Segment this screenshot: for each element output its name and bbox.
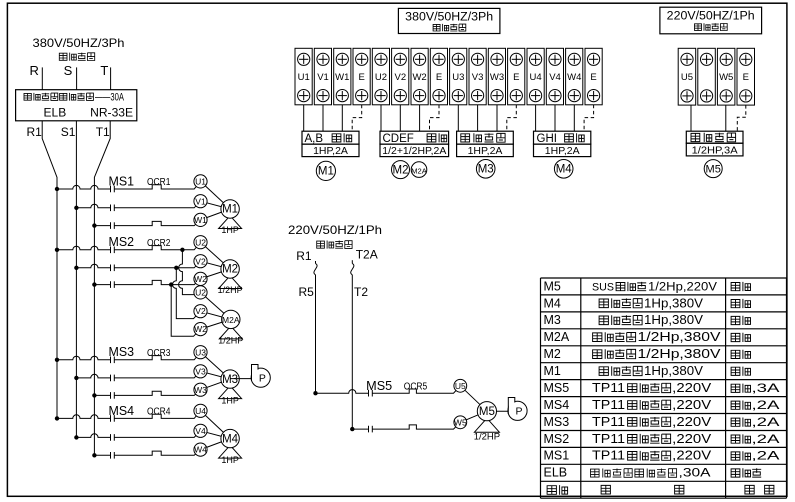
svg-text:SUS: SUS — [592, 281, 614, 293]
svg-text:T2A: T2A — [356, 247, 378, 261]
svg-text:M4: M4 — [556, 164, 573, 176]
svg-text:1HP: 1HP — [221, 225, 239, 235]
svg-text:OCR1: OCR1 — [147, 177, 171, 188]
svg-text:M1: M1 — [544, 364, 561, 378]
svg-text:TP11: TP11 — [592, 449, 625, 463]
svg-text:1Hp,380V: 1Hp,380V — [644, 296, 704, 310]
svg-text:380V/50HZ/3Ph: 380V/50HZ/3Ph — [33, 36, 125, 50]
svg-text:,2A: ,2A — [752, 432, 780, 446]
svg-text:M2: M2 — [222, 264, 238, 276]
svg-text:U3: U3 — [452, 72, 464, 83]
svg-text:380V/50HZ/3Ph: 380V/50HZ/3Ph — [405, 12, 493, 24]
svg-text:M1: M1 — [318, 166, 334, 178]
svg-text:1/2Hp,220V: 1/2Hp,220V — [648, 281, 717, 293]
svg-text:1/2HP: 1/2HP — [218, 336, 243, 346]
svg-text:V4: V4 — [195, 426, 206, 436]
svg-text:MS1: MS1 — [109, 174, 135, 188]
svg-text:1HP: 1HP — [221, 395, 239, 405]
svg-text:M2A: M2A — [544, 330, 570, 344]
svg-text:1/2HP,3A: 1/2HP,3A — [692, 144, 738, 156]
svg-text:U1: U1 — [298, 72, 310, 83]
svg-text:U2: U2 — [375, 72, 387, 83]
svg-text:CDEF: CDEF — [383, 133, 414, 145]
svg-text:M2: M2 — [393, 164, 409, 176]
svg-text:V3: V3 — [195, 366, 206, 376]
svg-text:W5: W5 — [719, 72, 733, 83]
svg-text:,220V: ,220V — [672, 415, 712, 429]
svg-text:W4: W4 — [194, 445, 207, 455]
svg-text:MS2: MS2 — [544, 432, 570, 446]
svg-text:MS5: MS5 — [366, 379, 392, 393]
svg-text:U2: U2 — [195, 237, 206, 247]
svg-text:,220V: ,220V — [672, 398, 712, 412]
svg-text:T2: T2 — [354, 285, 368, 299]
svg-text:ELB: ELB — [44, 106, 67, 120]
svg-text:V3: V3 — [472, 72, 484, 83]
svg-text:V2: V2 — [195, 256, 206, 266]
svg-text:W2: W2 — [194, 324, 207, 334]
svg-text:,220V: ,220V — [672, 432, 712, 446]
svg-text:M2: M2 — [544, 347, 561, 361]
svg-text:T: T — [100, 63, 108, 78]
svg-text:1HP,2A: 1HP,2A — [313, 145, 348, 157]
svg-text:1/2HP: 1/2HP — [218, 285, 243, 295]
svg-text:P: P — [259, 373, 266, 385]
svg-text:MS5: MS5 — [544, 381, 570, 395]
svg-text:V4: V4 — [549, 72, 561, 83]
svg-text:E: E — [743, 72, 749, 83]
svg-text:E: E — [590, 72, 596, 83]
svg-text:OCR2: OCR2 — [147, 238, 171, 249]
svg-text:M5: M5 — [479, 406, 495, 418]
svg-text:1Hp,380V: 1Hp,380V — [644, 313, 704, 327]
svg-text:TP11: TP11 — [592, 381, 625, 395]
svg-text:1Hp,380V: 1Hp,380V — [644, 364, 704, 378]
svg-text:MS3: MS3 — [544, 415, 570, 429]
svg-text:M4: M4 — [222, 433, 239, 445]
svg-text:MS4: MS4 — [109, 404, 135, 418]
svg-text:R: R — [30, 63, 39, 78]
svg-text:R1: R1 — [296, 249, 312, 263]
svg-text:W3: W3 — [490, 72, 504, 83]
svg-text:TP11: TP11 — [592, 398, 625, 412]
svg-text:M5: M5 — [544, 279, 561, 293]
svg-text:U5: U5 — [681, 72, 693, 83]
svg-text:TP11: TP11 — [592, 432, 625, 446]
svg-text:U3: U3 — [195, 347, 206, 357]
svg-text:M2A: M2A — [411, 166, 426, 175]
svg-text:W5: W5 — [454, 417, 467, 427]
svg-text:,220V: ,220V — [672, 449, 712, 463]
svg-text:OCR5: OCR5 — [404, 382, 428, 393]
svg-text:U4: U4 — [530, 72, 542, 83]
svg-text:U1: U1 — [195, 177, 206, 187]
svg-text:U5: U5 — [455, 381, 466, 391]
svg-text:M2A: M2A — [222, 315, 240, 325]
svg-text:ELB: ELB — [544, 466, 568, 480]
svg-text:W3: W3 — [194, 385, 207, 395]
svg-text:NR-33E: NR-33E — [90, 106, 133, 120]
svg-text:U2: U2 — [195, 287, 206, 297]
svg-text:——30A: ——30A — [95, 92, 124, 104]
svg-text:MS4: MS4 — [544, 398, 570, 412]
svg-text:,2A: ,2A — [752, 398, 780, 412]
svg-text:OCR3: OCR3 — [147, 348, 171, 359]
svg-text:1HP: 1HP — [221, 455, 239, 465]
svg-text:OCR4: OCR4 — [147, 407, 171, 418]
svg-text:220V/50HZ/1Ph: 220V/50HZ/1Ph — [288, 223, 382, 237]
svg-text:1HP,2A: 1HP,2A — [468, 145, 503, 157]
svg-text:MS1: MS1 — [544, 449, 570, 463]
svg-text:MS3: MS3 — [109, 345, 135, 359]
svg-text:M4: M4 — [544, 296, 561, 310]
svg-text:V1: V1 — [317, 72, 329, 83]
svg-text:R1: R1 — [27, 125, 43, 139]
svg-text:220V/50HZ/1Ph: 220V/50HZ/1Ph — [667, 11, 755, 23]
svg-text:V1: V1 — [195, 196, 206, 206]
svg-text:E: E — [513, 72, 519, 83]
svg-text:W4: W4 — [567, 72, 581, 83]
svg-text:M3: M3 — [222, 374, 238, 386]
svg-text:W1: W1 — [335, 72, 349, 83]
svg-text:S1: S1 — [61, 125, 76, 139]
svg-text:E: E — [436, 72, 442, 83]
svg-text:V2: V2 — [394, 72, 406, 83]
svg-text:1/2Hp,380V: 1/2Hp,380V — [638, 347, 722, 361]
svg-text:M1: M1 — [222, 204, 238, 216]
svg-text:,3A: ,3A — [752, 381, 780, 395]
svg-text:1HP,2A: 1HP,2A — [545, 145, 580, 157]
svg-text:,2A: ,2A — [752, 449, 780, 463]
svg-text:GHI: GHI — [537, 133, 557, 145]
svg-text:W2: W2 — [194, 274, 207, 284]
svg-text:E: E — [359, 72, 365, 83]
svg-text:A,B: A,B — [305, 133, 324, 145]
svg-text:M5: M5 — [706, 163, 721, 175]
svg-text:U4: U4 — [195, 406, 206, 416]
svg-text:W2: W2 — [412, 72, 426, 83]
svg-text:S: S — [64, 63, 73, 78]
svg-text:1/2Hp,380V: 1/2Hp,380V — [638, 330, 722, 344]
svg-text:1/2HP: 1/2HP — [474, 432, 500, 443]
svg-text:P: P — [515, 406, 522, 418]
svg-text:T1: T1 — [96, 125, 110, 139]
svg-text:TP11: TP11 — [592, 415, 625, 429]
svg-text:,2A: ,2A — [752, 415, 780, 429]
svg-text:M3: M3 — [478, 164, 494, 176]
svg-text:1/2+1/2HP,2A: 1/2+1/2HP,2A — [382, 145, 446, 157]
svg-text:MS2: MS2 — [109, 235, 135, 249]
svg-text:M3: M3 — [544, 313, 561, 327]
svg-text:V2: V2 — [195, 306, 206, 316]
svg-text:,30A: ,30A — [679, 466, 711, 480]
svg-text:W1: W1 — [194, 215, 207, 225]
svg-text:R5: R5 — [299, 285, 315, 299]
svg-text:,220V: ,220V — [672, 381, 712, 395]
